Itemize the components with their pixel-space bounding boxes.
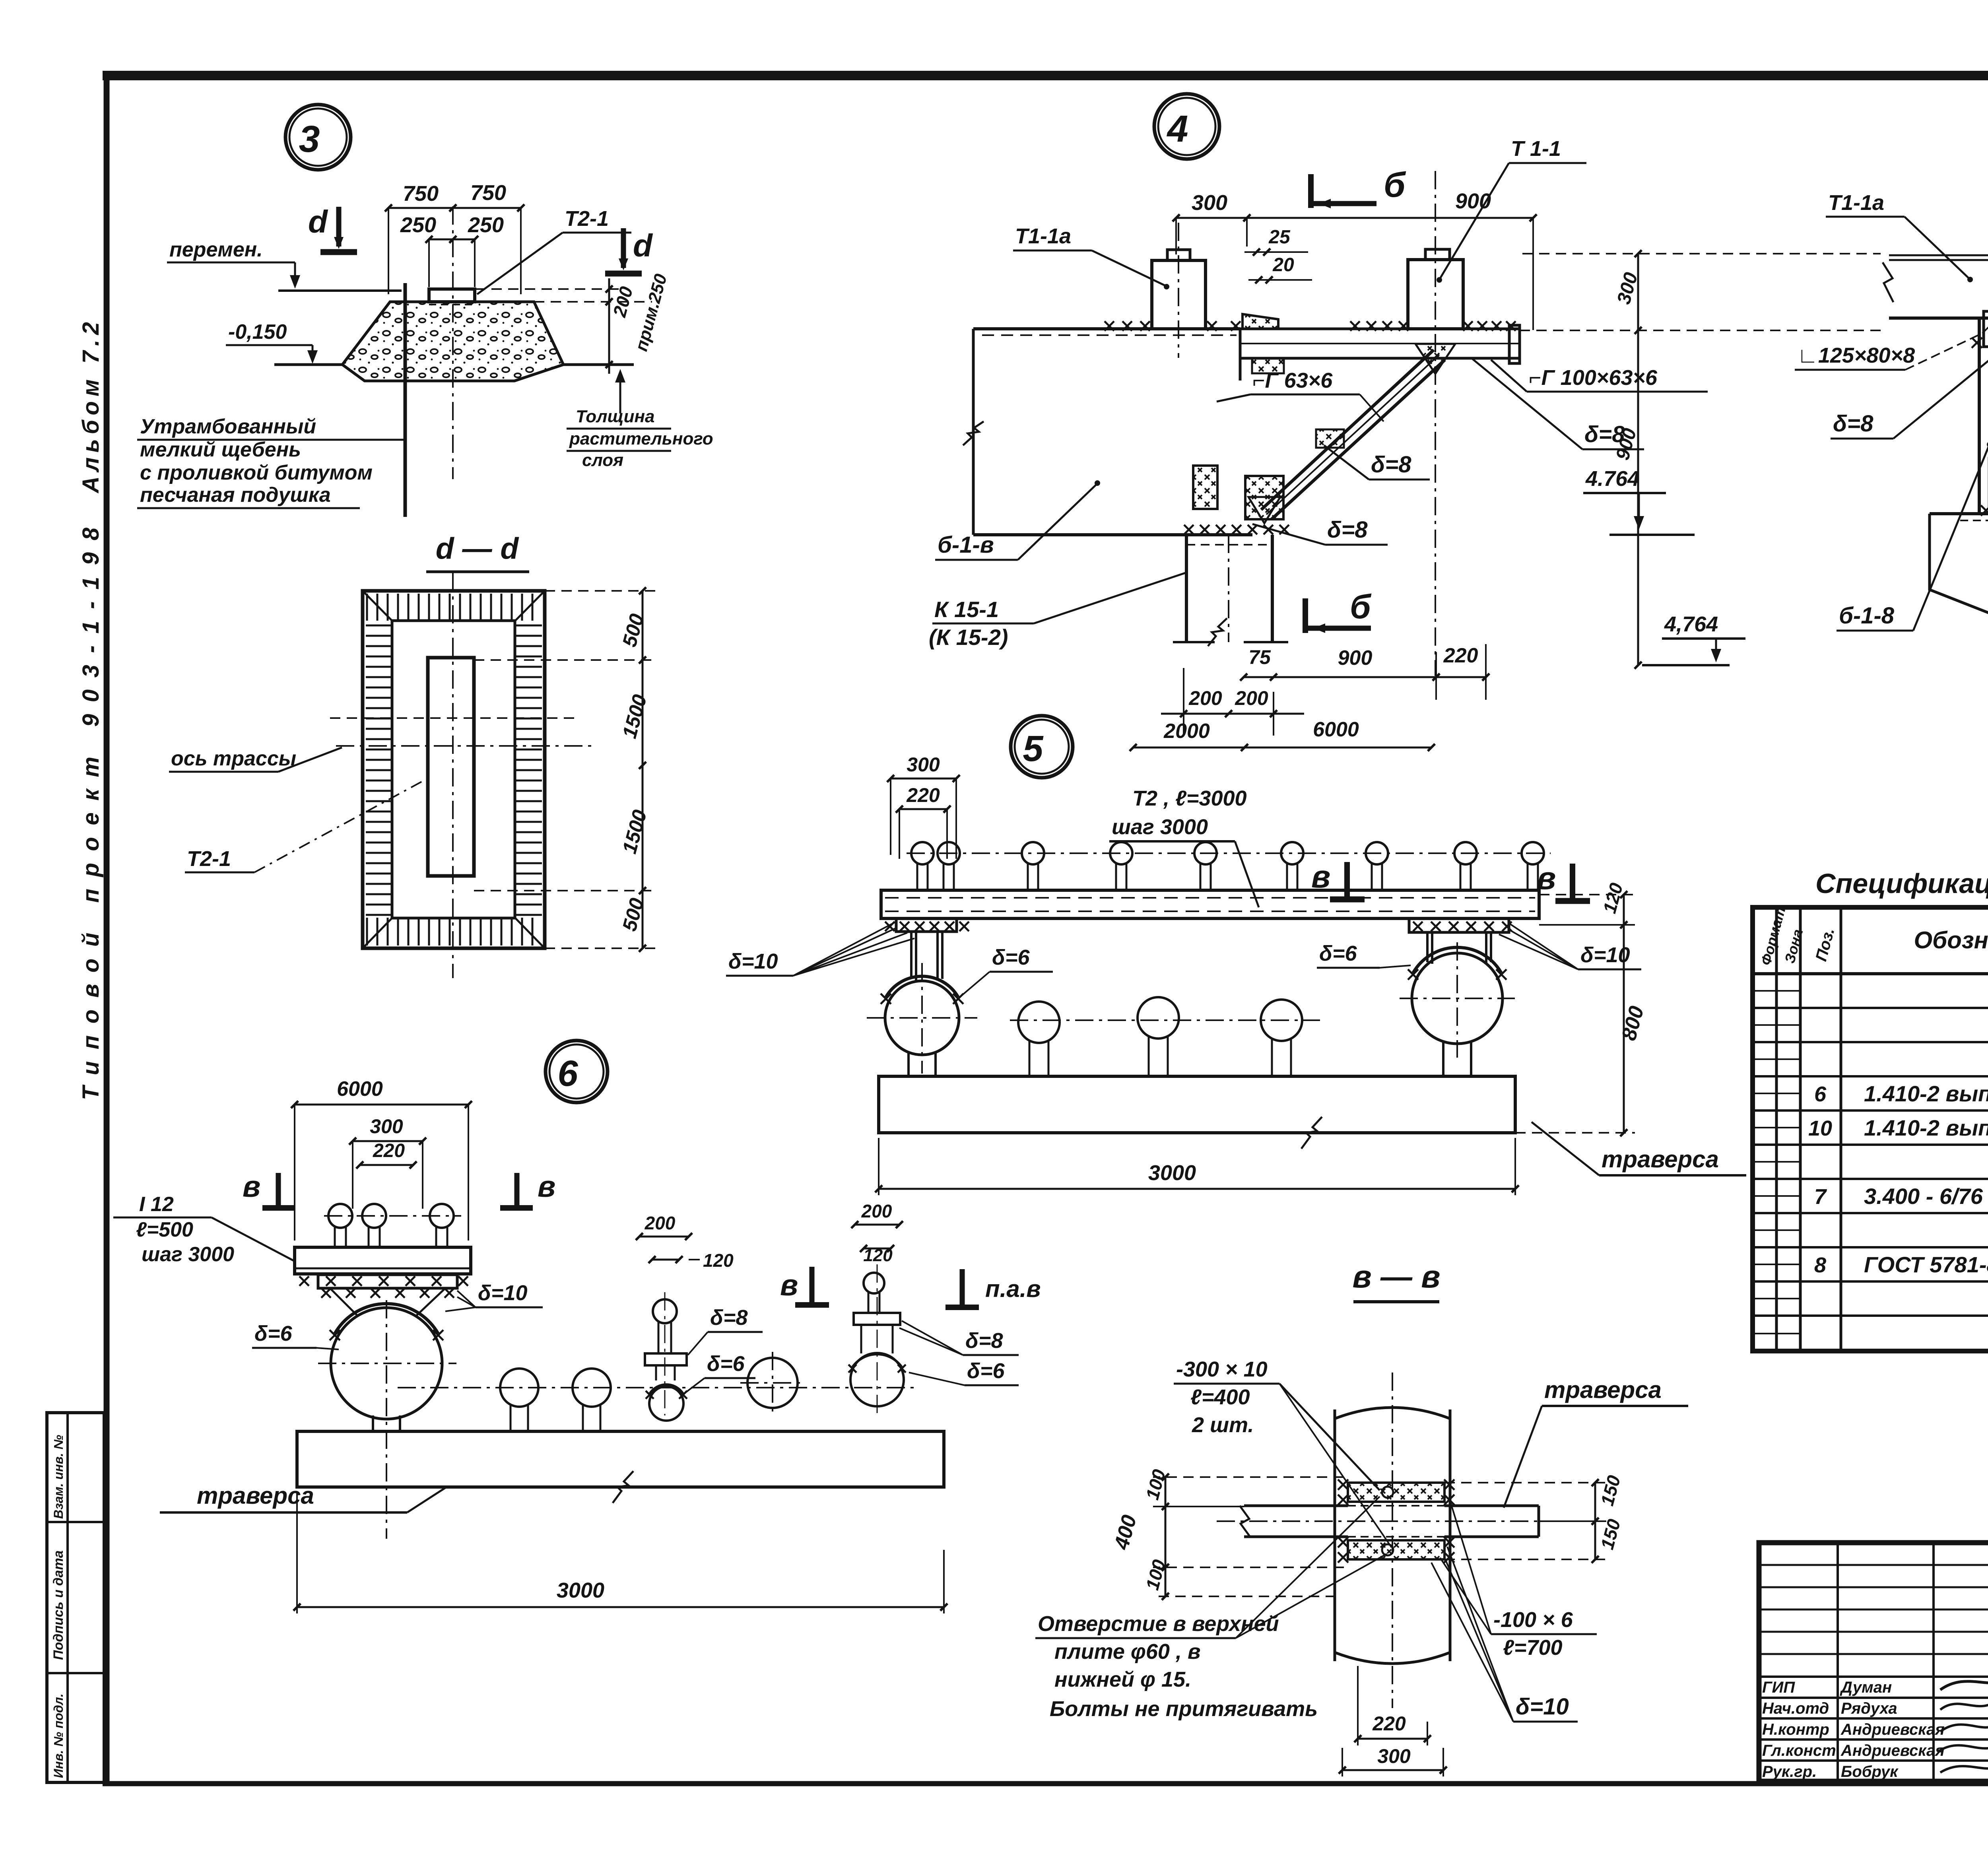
det5 pipe stubs on beam [907, 842, 1551, 890]
svg-text:-0,150: -0,150 [228, 320, 287, 344]
svg-text:I 12: I 12 [139, 1193, 174, 1216]
det6 dim 220 [356, 1140, 417, 1169]
svg-text:растительного: растительного [569, 429, 713, 448]
bb top clamp [1972, 306, 1988, 350]
label d10 det5 right [1499, 923, 1641, 969]
svg-text:Спецификация элементов н: Спецификация элементов на фундамент Фм 5 [1815, 868, 1988, 899]
mound pad block T2-1 [429, 289, 475, 305]
svg-text:ℓ=400: ℓ=400 [1190, 1385, 1250, 1409]
svg-text:δ=8: δ=8 [1327, 517, 1368, 543]
svg-text:-300 × 10: -300 × 10 [1176, 1357, 1268, 1381]
section d-d title [426, 532, 529, 572]
svg-text:d — d: d — d [436, 532, 519, 565]
mound ground line right [563, 363, 634, 366]
svg-text:250: 250 [468, 213, 504, 237]
title signatures [1762, 1676, 1988, 1780]
section v-v title [1352, 1259, 1440, 1302]
label K15-1 det4 [929, 573, 1186, 650]
label -300x10 [1174, 1357, 1392, 1547]
svg-text:б: б [1384, 165, 1406, 204]
svg-text:ГИП: ГИП [1762, 1679, 1795, 1696]
svg-text:Подпись и дата: Подпись и дата [51, 1550, 66, 1660]
svg-text:220: 220 [906, 784, 940, 806]
bb foundation outline [1930, 514, 1988, 764]
svg-text:К 15-1: К 15-1 [934, 597, 999, 622]
svg-text:3000: 3000 [1148, 1161, 1196, 1185]
det4 beam b-1-v [963, 329, 1252, 535]
svg-text:δ=6: δ=6 [992, 945, 1030, 969]
note tolschina [567, 369, 713, 470]
svg-text:750: 750 [403, 182, 439, 206]
det6 dims mini1 [636, 1213, 734, 1271]
svg-text:нижней φ 15.: нижней φ 15. [1054, 1668, 1191, 1691]
svg-text:б-1-8: б-1-8 [1839, 603, 1895, 629]
bb left dim [1612, 250, 1642, 669]
dd hatch top band [366, 594, 542, 621]
svg-text:3: 3 [299, 118, 320, 160]
section mark v left det5 [1311, 859, 1365, 899]
note otverstie [1035, 1497, 1387, 1721]
label T1-1 det4 [1437, 137, 1586, 282]
spec row pos10 [1808, 1115, 1988, 1140]
dd inner wall [392, 621, 515, 918]
svg-text:Андриевская: Андриевская [1840, 1721, 1945, 1738]
svg-text:δ=6: δ=6 [254, 1322, 292, 1345]
svg-text:Т1-1а: Т1-1а [1015, 224, 1071, 248]
svg-text:δ=8: δ=8 [1371, 452, 1411, 478]
det6 big pipe [318, 1300, 456, 1539]
det5 base traverse [879, 1076, 1515, 1149]
det4 level 4764 [1583, 467, 1695, 535]
svg-text:120: 120 [703, 1250, 734, 1271]
section mark b top [1311, 165, 1406, 208]
column K15 det4 [1173, 535, 1288, 646]
section mark v left det6 [243, 1170, 295, 1208]
svg-text:3.400 - 6/76: 3.400 - 6/76 [1864, 1184, 1983, 1209]
det6 saddle [330, 1304, 443, 1340]
svg-text:2000: 2000 [1163, 720, 1210, 743]
vv left dims [1110, 1467, 1344, 1600]
section mark v right det5 [1537, 860, 1590, 901]
svg-text:δ=6: δ=6 [967, 1359, 1005, 1383]
svg-text:300: 300 [370, 1115, 403, 1138]
det5 middle pipes [1010, 997, 1320, 1076]
svg-text:Инв. № подл.: Инв. № подл. [51, 1693, 66, 1778]
det5 left saddle [881, 976, 963, 1004]
label b-1-8 [1837, 443, 1988, 631]
det4 patch plates [1193, 466, 1283, 519]
label angle 125x80x8 [1795, 327, 1988, 370]
label b-1-v [935, 481, 1099, 560]
svg-text:шаг 3000: шаг 3000 [142, 1243, 234, 1266]
label T2-1 dd [185, 775, 433, 872]
svg-text:25: 25 [1268, 227, 1291, 248]
label d6 det6 [252, 1322, 339, 1349]
svg-text:6: 6 [557, 1053, 578, 1094]
label d6 mini2 [909, 1359, 1019, 1385]
mound ground line left [274, 363, 343, 366]
svg-text:шаг 3000: шаг 3000 [1112, 815, 1208, 839]
det6 mini support 1 [645, 1292, 687, 1421]
svg-text:п.а.в: п.а.в [985, 1276, 1041, 1302]
det4 diagonal brace [1248, 344, 1455, 523]
bb column [1979, 235, 1988, 843]
vv pipe column [1335, 1408, 1450, 1664]
label d8 det4 c [1252, 517, 1388, 545]
svg-text:Гл.конст: Гл.конст [1762, 1742, 1836, 1759]
svg-text:∟125×80×8: ∟125×80×8 [1797, 344, 1915, 367]
det5 left support [896, 918, 957, 980]
svg-text:10: 10 [1808, 1116, 1832, 1140]
det5 beam [881, 890, 1539, 918]
section mark d right [605, 228, 653, 274]
label d6 det5 left [961, 945, 1053, 996]
svg-text:d: d [633, 228, 653, 263]
dim 750 750 [385, 181, 524, 294]
label T1-1a bb [1826, 191, 1972, 282]
svg-text:300: 300 [907, 753, 940, 776]
spec table title [1815, 868, 1988, 899]
left stamp boxes [47, 1413, 104, 1782]
svg-text:с проливкой битумом: с проливкой битумом [140, 461, 373, 484]
det6 beam I12 [295, 1247, 471, 1274]
spec row pos7 [1814, 1184, 1988, 1209]
section mark b bottom [1305, 588, 1372, 633]
detail 3 circle marker [285, 105, 351, 170]
svg-text:ось трассы: ось трассы [171, 747, 296, 770]
spec row pos8 [1814, 1252, 1988, 1277]
det6 dim 6000 [291, 1077, 472, 1241]
svg-text:900: 900 [1455, 189, 1491, 213]
detail 4 circle marker [1154, 94, 1219, 159]
label d6 det5 right [1317, 942, 1411, 968]
label T1-1a det4 [1013, 224, 1169, 289]
spec header format [1757, 905, 1788, 967]
svg-text:ℓ=700: ℓ=700 [1503, 1636, 1563, 1660]
det4 beam hidden dash [982, 334, 1237, 336]
det4 dim 20 [1248, 254, 1312, 283]
det6 small pipes [398, 1369, 918, 1431]
label d8 det4 b [1324, 445, 1430, 480]
det4 bottom dims row3 [1130, 718, 1435, 751]
svg-text:4: 4 [1167, 108, 1188, 150]
svg-text:⌐Г 63×6: ⌐Г 63×6 [1252, 369, 1333, 392]
title block grid [1759, 1543, 1988, 1781]
det5 beam weld rows [885, 922, 1512, 931]
det6 base traverse [297, 1431, 944, 1503]
svg-text:траверса: траверса [1602, 1146, 1719, 1173]
svg-text:δ=10: δ=10 [478, 1281, 528, 1305]
label traversa det6 [160, 1482, 445, 1512]
det3 right dims [475, 272, 671, 374]
label I12 [113, 1193, 295, 1266]
det5 right pipe [1400, 942, 1515, 1076]
label d8 mini2 [899, 1321, 1019, 1355]
section mark pav det6 [945, 1269, 1041, 1307]
label angle 63x6 det4 [1217, 369, 1384, 421]
svg-text:4,764: 4,764 [1664, 612, 1718, 636]
dd trace dash [330, 717, 580, 719]
label peremen [167, 238, 300, 289]
label angle 100x63x6 det4 [1491, 360, 1708, 392]
dd hatch bottom band [366, 918, 542, 945]
svg-text:6: 6 [1814, 1082, 1827, 1106]
svg-text:750: 750 [470, 181, 506, 205]
svg-text:(К 15-2): (К 15-2) [929, 625, 1008, 650]
label -0,150 [226, 320, 318, 364]
svg-text:1.410-2 вып.1: 1.410-2 вып.1 [1864, 1115, 1988, 1140]
svg-text:d: d [308, 204, 328, 239]
svg-text:200: 200 [1188, 687, 1222, 709]
svg-text:8: 8 [1814, 1253, 1826, 1277]
svg-text:б-1-в: б-1-в [938, 532, 994, 558]
note utrambovanny [137, 415, 404, 508]
svg-text:300: 300 [1192, 191, 1227, 215]
det4 weld xmarks row [1105, 321, 1516, 331]
dim 250 250 [400, 213, 504, 287]
svg-text:δ=8: δ=8 [1833, 411, 1873, 437]
spec header poz [1812, 926, 1838, 963]
det5 left pipe [867, 963, 977, 1076]
svg-text:220: 220 [373, 1140, 405, 1161]
det5 right dim [1515, 881, 1648, 1136]
svg-text:δ=6: δ=6 [707, 1352, 745, 1376]
det4 shelf weld patch [1252, 358, 1284, 373]
mound pile rod [404, 283, 407, 517]
svg-text:Т1-1а: Т1-1а [1828, 191, 1884, 215]
det6 pipe stubs [324, 1204, 461, 1247]
det4 weld row bottom [1184, 525, 1289, 534]
vv dim 220 [1354, 1666, 1431, 1745]
dd centerline horizontal [336, 745, 596, 747]
svg-text:Т 1-1: Т 1-1 [1511, 137, 1561, 161]
dd corner joints [363, 591, 545, 948]
svg-text:песчаная подушка: песчаная подушка [140, 483, 331, 507]
svg-text:220: 220 [1372, 1712, 1406, 1735]
svg-text:220: 220 [1443, 644, 1478, 667]
svg-text:3000: 3000 [557, 1578, 604, 1602]
svg-text:слоя: слоя [582, 450, 623, 470]
svg-text:ГОСТ 5781-81: ГОСТ 5781-81 [1864, 1252, 1988, 1277]
svg-text:Н.контр: Н.контр [1762, 1721, 1829, 1738]
det6 beam weld row [299, 1276, 468, 1286]
label traversa det5 [1532, 1122, 1746, 1175]
svg-text:в — в: в — в [1352, 1259, 1440, 1294]
mound section [342, 302, 563, 381]
det5 dim 3000 [875, 1138, 1519, 1195]
dd hatch left band [366, 620, 392, 918]
svg-text:900: 900 [1338, 646, 1373, 670]
svg-text:2 шт.: 2 шт. [1192, 1413, 1254, 1437]
sheet frame top border [103, 71, 1988, 80]
svg-text:δ=8: δ=8 [710, 1306, 748, 1330]
svg-text:300: 300 [1377, 1745, 1411, 1767]
svg-text:Рядуха: Рядуха [1841, 1700, 1897, 1717]
svg-text:-100 × 6: -100 × 6 [1493, 1608, 1573, 1632]
det5 right support [1409, 918, 1509, 964]
svg-text:Утрамбованный: Утрамбованный [140, 415, 316, 438]
det6 dims mini2 [851, 1201, 903, 1265]
svg-text:Т2-1: Т2-1 [565, 207, 609, 231]
det5 dim 300 [887, 753, 960, 859]
bb mid clamp [1981, 455, 1988, 516]
spec header zona [1781, 928, 1806, 965]
svg-text:6000: 6000 [1313, 718, 1359, 741]
svg-text:Рук.гр.: Рук.гр. [1762, 1763, 1817, 1780]
det5 right saddle [1408, 947, 1507, 980]
svg-text:20: 20 [1272, 254, 1294, 276]
svg-text:Взам. инв. №: Взам. инв. № [51, 1435, 66, 1519]
svg-text:δ=10: δ=10 [728, 949, 778, 973]
svg-text:Думан: Думан [1840, 1679, 1892, 1696]
svg-text:мелкий щебень: мелкий щебень [140, 438, 301, 461]
svg-text:4.764: 4.764 [1585, 467, 1639, 491]
spec header oboznachenie [1914, 927, 1988, 953]
label d8 mini1 [688, 1306, 763, 1355]
sheet frame bottom border [103, 1781, 1988, 1786]
det4 bottom dims row1 [1240, 644, 1489, 700]
svg-text:200: 200 [861, 1201, 892, 1221]
spec table grid [1753, 907, 1988, 1351]
svg-text:120: 120 [863, 1246, 893, 1265]
svg-text:в: в [538, 1170, 555, 1203]
peremen level line [278, 289, 402, 292]
vv top clamp plate [1338, 1479, 1454, 1505]
svg-text:Толщина: Толщина [576, 407, 655, 426]
bb beam [1883, 255, 1988, 318]
svg-text:6000: 6000 [337, 1077, 383, 1101]
section mark v mid det6 [780, 1267, 829, 1305]
dd inner slot [428, 658, 474, 876]
dd hatch right band [515, 620, 542, 918]
label d6 mini1 [685, 1352, 755, 1393]
svg-text:б: б [1350, 588, 1372, 626]
svg-text:1.410-2 вып.1: 1.410-2 вып.1 [1864, 1081, 1988, 1106]
label T2-1 det3 [477, 207, 631, 294]
vv traverse beam [1217, 1506, 1574, 1537]
svg-text:Андриевская: Андриевская [1840, 1742, 1945, 1759]
svg-text:δ=10: δ=10 [1516, 1694, 1569, 1720]
spec row pos6 [1814, 1081, 1988, 1106]
svg-text:Болты не притягивать: Болты не притягивать [1050, 1697, 1318, 1721]
svg-text:δ=10: δ=10 [1580, 943, 1630, 967]
detail 5 circle marker [1011, 716, 1073, 778]
mound centerline [452, 206, 454, 479]
det4 dim 25 [1244, 227, 1308, 256]
vv dim 300 [1339, 1745, 1447, 1776]
det6 support plate [318, 1275, 457, 1316]
svg-text:200: 200 [645, 1213, 676, 1233]
label d10 det5 left [726, 922, 914, 976]
vv bottom clamp plate [1338, 1537, 1454, 1563]
svg-text:ℓ=500: ℓ=500 [136, 1218, 193, 1241]
det4 top dim [1173, 189, 1537, 330]
svg-text:траверса: траверса [1544, 1376, 1662, 1403]
det4 ext lines right [1520, 254, 1887, 330]
det5 dim 220 [896, 784, 951, 859]
svg-text:Обозначение: Обозначение [1914, 927, 1988, 953]
svg-text:250: 250 [400, 213, 436, 237]
svg-text:в: в [780, 1268, 798, 1302]
svg-text:в: в [1537, 860, 1556, 896]
plate T1-1 [1408, 171, 1463, 676]
label os trassy [169, 747, 342, 772]
svg-text:в: в [243, 1170, 260, 1203]
label T2 l3000 [1109, 786, 1259, 907]
det6 dim 300 [349, 1115, 426, 1209]
dd outer wall [363, 591, 545, 948]
detail 6 circle marker [546, 1041, 608, 1103]
label d10 vv [1431, 1547, 1578, 1722]
label traversa vv [1504, 1376, 1688, 1508]
vv centerline vertical [1392, 1373, 1393, 1708]
det4 shelf wedge [1242, 314, 1278, 329]
dd dim chain [474, 587, 656, 952]
plate T1-1a [1152, 223, 1206, 358]
svg-text:200: 200 [1235, 687, 1268, 709]
vv right dims [1444, 1473, 1625, 1563]
sheet frame left border [104, 76, 110, 1784]
det6 mini support 2 [848, 1264, 906, 1415]
svg-text:7: 7 [1814, 1185, 1827, 1209]
dd centerline vertical [452, 573, 454, 978]
bb foundation top [1930, 514, 1988, 520]
album vertical caption [78, 322, 104, 1100]
section mark d left [308, 204, 357, 252]
bb level 4764 left [1642, 612, 1745, 665]
label d10 det6 [445, 1281, 543, 1311]
svg-text:δ=6: δ=6 [1319, 942, 1357, 965]
svg-text:5: 5 [1023, 728, 1044, 769]
svg-text:перемен.: перемен. [169, 238, 263, 261]
label d8 bb top [1831, 351, 1988, 439]
svg-text:Бобрук: Бобрук [1841, 1763, 1899, 1780]
det6 dim 3000 [293, 1493, 947, 1613]
label d8 det4 a [1471, 358, 1644, 449]
svg-text:Т2-1: Т2-1 [187, 847, 231, 871]
section mark v right det6 [500, 1170, 555, 1208]
det4 bottom dims row2 [1161, 668, 1304, 736]
svg-text:δ=8: δ=8 [965, 1329, 1003, 1353]
det4 shelf bracket [1240, 325, 1520, 363]
det6 mid pipe [740, 1352, 806, 1415]
svg-text:75: 75 [1248, 646, 1271, 668]
svg-text:Т2 , ℓ=3000: Т2 , ℓ=3000 [1132, 786, 1247, 810]
svg-text:Нач.отд: Нач.отд [1762, 1700, 1829, 1717]
svg-text:плите φ60 , в: плите φ60 , в [1054, 1640, 1201, 1664]
label -100x6 [1440, 1502, 1597, 1660]
svg-text:в: в [1311, 859, 1330, 894]
